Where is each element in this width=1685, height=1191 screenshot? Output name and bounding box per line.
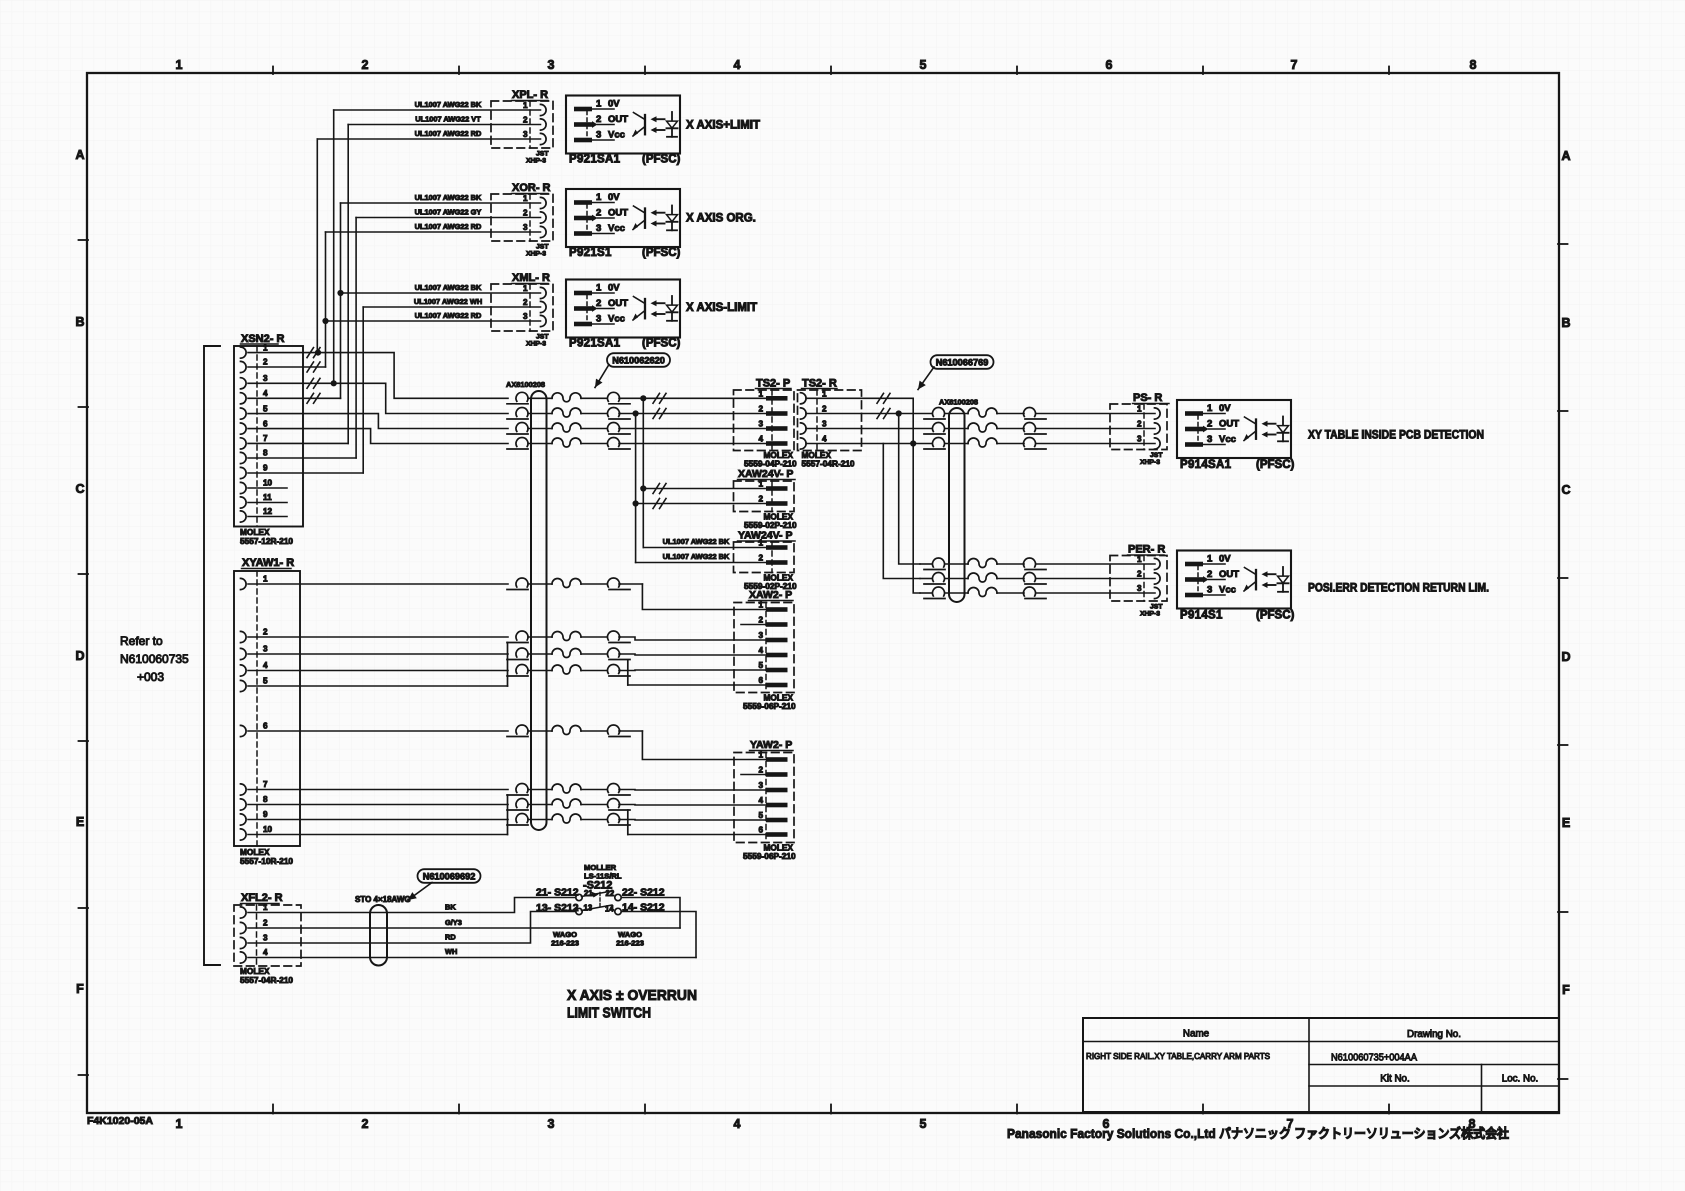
wire net XML WH vertical to XSN2 pin9 bbox=[362, 307, 364, 473]
cable1 crimp right y=443.5 bbox=[608, 438, 620, 447]
cable1 wire segment y=654 bbox=[528, 653, 552, 655]
wire to XAW24V-P pin2 bbox=[636, 503, 766, 505]
wire XYAW1 pin9 to YAW2-P pin5 bbox=[248, 819, 508, 821]
svg-text:1: 1 bbox=[176, 58, 183, 72]
svg-text:YAW2- P: YAW2- P bbox=[750, 739, 792, 751]
svg-text:XYAW1- R: XYAW1- R bbox=[242, 557, 294, 569]
svg-text:14: 14 bbox=[605, 905, 614, 914]
sensor P914S1 phototransistor bbox=[1255, 570, 1257, 589]
svg-text:1: 1 bbox=[523, 194, 528, 203]
cross-reference slashes pin1 bbox=[307, 348, 314, 358]
svg-text:2: 2 bbox=[1137, 570, 1142, 579]
leader line N610062620 bbox=[595, 365, 609, 388]
svg-text:UL1007 AWG22 BK: UL1007 AWG22 BK bbox=[415, 100, 482, 109]
wire net XOR GY vertical to XSN2 pin8 bbox=[355, 218, 357, 459]
svg-text:5: 5 bbox=[920, 58, 927, 72]
sensor P921SA1 photodiode bbox=[671, 112, 673, 137]
svg-text:3: 3 bbox=[1137, 435, 1142, 444]
svg-text:6: 6 bbox=[1106, 58, 1113, 72]
svg-text:UL1007 AWG22 BK: UL1007 AWG22 BK bbox=[663, 537, 730, 546]
connector XYAW1-R body bbox=[234, 571, 300, 846]
svg-text:-S212: -S212 bbox=[583, 880, 612, 892]
svg-text:BK: BK bbox=[445, 903, 456, 912]
frame row ticks right bbox=[1558, 243, 1568, 245]
switch S212 terminal 14 (WAGO) bbox=[615, 908, 621, 914]
svg-text:4: 4 bbox=[263, 948, 268, 957]
wire XSN2 pin2 bbox=[248, 366, 326, 368]
svg-text:3: 3 bbox=[758, 781, 763, 790]
sensor P921SA1 outline bbox=[566, 96, 680, 154]
wire XSN2 pin8 bbox=[248, 457, 356, 459]
svg-text:F: F bbox=[1562, 983, 1570, 997]
switch S212 mechanical link bbox=[599, 893, 601, 910]
svg-text:XHP-3: XHP-3 bbox=[526, 158, 546, 165]
svg-text:4: 4 bbox=[263, 389, 268, 398]
svg-text:1: 1 bbox=[758, 601, 763, 610]
junction branch to XAW24V-P pin1 bbox=[640, 395, 646, 401]
svg-text:6: 6 bbox=[263, 419, 268, 428]
svg-text:(PFSC): (PFSC) bbox=[1256, 610, 1295, 622]
wire cable2 w5 to PER-R pin2 bbox=[1036, 578, 1155, 580]
cable1 crimp right y=637 bbox=[608, 631, 620, 640]
svg-text:B: B bbox=[75, 315, 84, 329]
svg-text:P914SA1: P914SA1 bbox=[1180, 459, 1232, 471]
svg-text:RIGHT SIDE RAIL.XY TABLE,CARRY: RIGHT SIDE RAIL.XY TABLE,CARRY ARM PARTS bbox=[1086, 1052, 1271, 1061]
connector YAW24V-P pins bbox=[766, 545, 788, 550]
svg-text:TS2- P: TS2- P bbox=[756, 378, 790, 390]
junction XSN2 pin1 / XPL RD bbox=[315, 350, 321, 356]
wire XSN2 pin6 (cable w4) bbox=[248, 429, 508, 444]
svg-text:0V: 0V bbox=[608, 282, 620, 293]
svg-text:+003: +003 bbox=[137, 670, 164, 684]
svg-text:P914S1: P914S1 bbox=[1180, 610, 1223, 622]
svg-text:XHP-3: XHP-3 bbox=[1140, 611, 1160, 618]
cable1 crimp left y=654 bbox=[516, 648, 528, 657]
junction TS2-R pin1/pin4 bbox=[910, 440, 916, 446]
svg-text:XHP-3: XHP-3 bbox=[526, 341, 546, 348]
sensor P921SA1 pin bars bbox=[574, 291, 592, 296]
sensor P914S1 light arrows bbox=[1267, 573, 1276, 575]
svg-text:3: 3 bbox=[596, 313, 601, 324]
svg-text:P921SA1: P921SA1 bbox=[569, 154, 621, 166]
svg-text:3: 3 bbox=[263, 645, 268, 654]
wire cable w4 to TS2-P pin4 bbox=[620, 443, 766, 445]
connector TS2-P pins bbox=[766, 396, 788, 401]
svg-text:(PFSC): (PFSC) bbox=[642, 154, 681, 166]
switch S212 actuator arrow bbox=[591, 892, 599, 898]
svg-text:1: 1 bbox=[758, 751, 763, 760]
svg-text:B: B bbox=[1561, 316, 1570, 330]
svg-text:5: 5 bbox=[758, 811, 763, 820]
svg-text:5557-12R-210: 5557-12R-210 bbox=[240, 536, 293, 546]
wire cable2 w1 to PS-R pin1 bbox=[1036, 413, 1155, 415]
cross-reference slashes bbox=[653, 499, 660, 509]
svg-text:UL1007 AWG22 RD: UL1007 AWG22 RD bbox=[415, 311, 482, 320]
sensor P914SA1 light arrows bbox=[1267, 423, 1276, 425]
svg-text:4: 4 bbox=[263, 661, 268, 670]
connector YAW2-P pins bbox=[766, 757, 788, 762]
wire XFL2 pin3 RD to switch terminal 13 bbox=[248, 912, 577, 944]
cable2 wire segment y=413.5 bbox=[945, 413, 968, 415]
svg-text:9: 9 bbox=[263, 464, 268, 473]
svg-text:1: 1 bbox=[263, 903, 268, 912]
junction XML BK tap bbox=[337, 290, 343, 296]
sensor P914SA1 pin bars bbox=[1185, 411, 1203, 416]
svg-text:0V: 0V bbox=[1219, 553, 1231, 564]
svg-text:N610066769: N610066769 bbox=[936, 357, 989, 367]
part callout N610066769 bbox=[931, 355, 994, 369]
svg-text:PER- R: PER- R bbox=[1128, 544, 1165, 556]
cable2 wire segment y=593 bbox=[945, 592, 968, 594]
svg-text:AX6100208: AX6100208 bbox=[506, 380, 545, 389]
cable1 crimp left y=443.5 bbox=[516, 438, 528, 447]
connector XOR- R contacts bbox=[541, 197, 547, 208]
connector XFL2-R body bbox=[234, 905, 301, 966]
cable2 crimp right y=443.5 bbox=[1024, 438, 1036, 447]
svg-text:1: 1 bbox=[1207, 403, 1213, 414]
connector XAW24V-P pins bbox=[766, 486, 788, 491]
junction XSN2 pin3 / XPL BK bbox=[331, 380, 337, 386]
svg-text:3: 3 bbox=[758, 420, 763, 429]
svg-text:1: 1 bbox=[1207, 553, 1213, 564]
sensor P921SA1 pin leads bbox=[592, 108, 614, 110]
cable2 crimp left y=443.5 bbox=[933, 438, 945, 447]
svg-text:3: 3 bbox=[523, 312, 528, 321]
svg-text:7: 7 bbox=[263, 434, 268, 443]
part callout N610062620 bbox=[607, 353, 670, 367]
junction XML RD tap bbox=[322, 318, 328, 324]
svg-text:OUT: OUT bbox=[608, 298, 628, 309]
svg-text:N610069692: N610069692 bbox=[423, 871, 476, 881]
cross-reference slashes bbox=[877, 409, 884, 419]
cable STO 4X18AWG jacket bbox=[370, 905, 387, 966]
svg-text:5557-04R-210: 5557-04R-210 bbox=[802, 459, 855, 469]
sensor P914S1 photodiode bbox=[1282, 567, 1284, 592]
svg-text:6: 6 bbox=[758, 676, 763, 685]
svg-text:2: 2 bbox=[758, 766, 763, 775]
svg-text:UL1007 AWG22 RD: UL1007 AWG22 RD bbox=[415, 129, 482, 138]
svg-text:G/Y3: G/Y3 bbox=[445, 918, 462, 927]
svg-text:3: 3 bbox=[596, 129, 601, 140]
svg-text:JST: JST bbox=[1150, 452, 1163, 459]
svg-text:216-223: 216-223 bbox=[616, 939, 644, 948]
svg-text:0V: 0V bbox=[608, 98, 620, 109]
cable1 crimp right y=789.5 bbox=[608, 784, 620, 793]
svg-text:OUT: OUT bbox=[1219, 569, 1239, 580]
wire TS2-R pin4 to cable2 w3 bbox=[806, 443, 932, 445]
svg-text:X AXIS ± OVERRUN: X AXIS ± OVERRUN bbox=[567, 988, 697, 1004]
cable2 wire segment y=578.5 bbox=[945, 578, 968, 580]
wire cable w1 to TS2-P pin1 bbox=[620, 397, 766, 399]
wire XSN2 pin1 (net XPL RD / cable w1) bbox=[248, 353, 508, 399]
svg-text:2: 2 bbox=[596, 298, 601, 309]
cable2 crimp right y=413.5 bbox=[1024, 408, 1036, 417]
svg-text:8: 8 bbox=[1470, 58, 1477, 72]
cable1 crimp right y=398.3 bbox=[608, 392, 620, 401]
svg-text:7: 7 bbox=[263, 780, 268, 789]
svg-text:2: 2 bbox=[822, 405, 827, 414]
svg-text:1: 1 bbox=[758, 480, 763, 489]
wire UL1007 AWG22 RD to XML- R pin3 bbox=[326, 320, 541, 322]
svg-text:2: 2 bbox=[263, 919, 268, 928]
wire TS2-R pin1 to PER w3 bbox=[806, 398, 920, 593]
cable2 crimp right y=564 bbox=[1024, 558, 1036, 567]
cable1 crimp left y=789.5 bbox=[516, 784, 528, 793]
svg-text:0V: 0V bbox=[608, 192, 620, 203]
cable1 crimp left y=804.5 bbox=[516, 799, 528, 808]
svg-text:OUT: OUT bbox=[608, 114, 628, 125]
connector TS2-R body bbox=[798, 390, 862, 451]
wire PER w1 feed bbox=[920, 563, 932, 565]
svg-text:Panasonic Factory Solutions Co: Panasonic Factory Solutions Co.,Ltd パナソニ… bbox=[1007, 1126, 1509, 1141]
wire net XPL RD vertical to XSN2 pin1 bbox=[316, 139, 318, 353]
svg-text:XHP-3: XHP-3 bbox=[526, 251, 546, 258]
svg-text:1: 1 bbox=[758, 539, 763, 548]
wire branch vertical to XAW24V-P pin2 and YAW24V-P pin2 bbox=[635, 414, 637, 563]
sensor P914SA1 outline bbox=[1177, 400, 1291, 458]
wire UL1007 AWG22 RD to XOR- R pin3 bbox=[326, 231, 541, 233]
svg-text:6: 6 bbox=[263, 722, 268, 731]
svg-text:7: 7 bbox=[1291, 58, 1298, 72]
cable2 crimp left y=413.5 bbox=[933, 408, 945, 417]
wire cable2 w6 to PER-R pin3 bbox=[1036, 592, 1155, 594]
cable1 shield bus right (XYAW1 7-10 group) bbox=[627, 810, 629, 835]
svg-text:Vcc: Vcc bbox=[1219, 434, 1236, 445]
svg-text:XOR- R: XOR- R bbox=[512, 182, 551, 194]
cable1 wire segment y=428.5 bbox=[528, 428, 552, 430]
svg-text:POSI.ERR DETECTION RETURN LIM.: POSI.ERR DETECTION RETURN LIM. bbox=[1308, 581, 1489, 595]
sensor P921SA1 outline bbox=[566, 280, 680, 338]
svg-text:2: 2 bbox=[523, 209, 528, 218]
wire XYAW1 pin10 shield drain bbox=[248, 834, 508, 836]
wire branch vertical to XAW24V-P pin1 and YAW24V-P pin1 bbox=[642, 398, 644, 547]
svg-text:2: 2 bbox=[1137, 420, 1142, 429]
svg-text:22- S212: 22- S212 bbox=[622, 887, 665, 899]
cable2 wire segment y=564 bbox=[945, 563, 968, 565]
switch S212 terminal 21 (WAGO) bbox=[576, 894, 582, 900]
svg-text:2: 2 bbox=[1207, 569, 1212, 580]
svg-text:Loc. No.: Loc. No. bbox=[1502, 1074, 1539, 1085]
cable1 crimp left y=637 bbox=[516, 631, 528, 640]
sensor P921SA1 pin leads bbox=[592, 292, 614, 294]
svg-text:AX6100208: AX6100208 bbox=[939, 398, 978, 407]
connector TS2-R contacts bbox=[801, 393, 807, 404]
cable AX6100208 jacket bbox=[531, 391, 547, 830]
svg-text:A: A bbox=[1561, 149, 1570, 163]
svg-text:8: 8 bbox=[263, 449, 268, 458]
wire UL1007 AWG22 RD to XPL- R pin3 bbox=[317, 138, 540, 140]
svg-text:N610060735+004AA: N610060735+004AA bbox=[1331, 1052, 1417, 1064]
sensor P921S1 outline bbox=[566, 189, 680, 247]
wire XSN2 pin11 stub bbox=[248, 502, 287, 504]
sensor P921SA1 phototransistor bbox=[644, 115, 646, 134]
svg-text:1: 1 bbox=[1137, 405, 1142, 414]
cable1 shield bus left (XYAW1 2-5 group) bbox=[507, 643, 509, 687]
connector TS2-P body bbox=[734, 390, 795, 451]
svg-text:3: 3 bbox=[263, 934, 268, 943]
title block dividers bbox=[1083, 1041, 1559, 1043]
svg-text:3: 3 bbox=[523, 130, 528, 139]
wire switch terminal 22 to G/Y3 bbox=[621, 898, 680, 929]
svg-text:5557-04R-210: 5557-04R-210 bbox=[240, 975, 293, 985]
junction XAW24V tap bbox=[633, 500, 639, 506]
cross-reference slashes bbox=[877, 393, 884, 403]
svg-text:4: 4 bbox=[734, 58, 741, 72]
cable1 crimp right y=819.5 bbox=[608, 814, 620, 823]
svg-text:3: 3 bbox=[263, 374, 268, 383]
svg-text:STO 4×18AWG: STO 4×18AWG bbox=[355, 895, 411, 904]
sensor P921S1 pin leads bbox=[592, 202, 614, 204]
sensor P914SA1 photodiode bbox=[1282, 417, 1284, 442]
svg-text:2: 2 bbox=[523, 298, 528, 307]
cross-reference slashes pin4 bbox=[307, 393, 314, 403]
connector XOR- R body bbox=[491, 194, 553, 241]
cable1 wire segment y=789.5 bbox=[528, 789, 552, 791]
wire net XPL BK vertical to XSN2 pin3 bbox=[333, 110, 335, 383]
switch S212 terminal 22 (WAGO) bbox=[615, 894, 621, 900]
cable1 wire segment y=731 bbox=[528, 730, 552, 732]
sensor P914S1 outline bbox=[1177, 551, 1291, 609]
wire cable2 w2 to PS-R pin2 bbox=[1036, 428, 1155, 430]
svg-text:JST: JST bbox=[536, 334, 549, 341]
wire XYAW1 pin3 to XAW2-P pin4 bbox=[248, 653, 508, 655]
svg-text:3: 3 bbox=[548, 1117, 555, 1131]
svg-text:XFL2- R: XFL2- R bbox=[241, 892, 283, 904]
cable1 wire segment y=398.3 bbox=[528, 397, 552, 399]
svg-text:F4K1020-05A: F4K1020-05A bbox=[87, 1115, 153, 1127]
svg-text:3: 3 bbox=[1207, 584, 1212, 595]
junction branch to PER w1 bbox=[896, 410, 902, 416]
sensor P921S1 phototransistor bbox=[644, 209, 646, 228]
svg-text:10: 10 bbox=[263, 825, 273, 834]
cable1 crimp right y=584 bbox=[608, 578, 620, 587]
svg-text:1: 1 bbox=[822, 389, 827, 398]
svg-text:X AXIS+LIMIT: X AXIS+LIMIT bbox=[686, 120, 760, 132]
wire UL1007 AWG22 GY to XOR- R pin2 bbox=[356, 217, 540, 219]
svg-text:2: 2 bbox=[523, 116, 528, 125]
svg-text:UL1007 AWG22 GY: UL1007 AWG22 GY bbox=[415, 207, 482, 216]
part callout N610069692 bbox=[418, 869, 481, 883]
svg-text:P921SA1: P921SA1 bbox=[569, 338, 621, 350]
svg-text:3: 3 bbox=[1137, 584, 1142, 593]
wire UL1007 AWG22 BK to XPL- R pin1 bbox=[334, 109, 541, 111]
connector PER- R contacts bbox=[1155, 558, 1161, 569]
wire XFL2 pin4 WH bbox=[248, 957, 696, 959]
wire UL1007 AWG22 BK to XML- R pin1 bbox=[341, 292, 541, 294]
cross-reference slashes bbox=[653, 409, 660, 419]
svg-text:5: 5 bbox=[758, 661, 763, 670]
wire UL1007 AWG22 WH to XML- R pin2 bbox=[363, 306, 540, 308]
cable2 crimp left y=564 bbox=[933, 558, 945, 567]
svg-text:2: 2 bbox=[758, 495, 763, 504]
wire XSN2 pin10 stub bbox=[248, 487, 287, 489]
svg-text:3: 3 bbox=[822, 420, 827, 429]
svg-text:2: 2 bbox=[263, 358, 268, 367]
svg-text:XPL- R: XPL- R bbox=[512, 89, 548, 101]
svg-text:4: 4 bbox=[758, 796, 763, 805]
svg-text:Refer to: Refer to bbox=[120, 634, 163, 648]
svg-text:Kit No.: Kit No. bbox=[1380, 1074, 1409, 1085]
frame column ticks top bbox=[272, 67, 274, 75]
connector XAW2-P body bbox=[734, 603, 794, 693]
sensor P921SA1 pin bars bbox=[574, 107, 592, 112]
wire XYAW1 pin8 to YAW2-P pin4 bbox=[248, 804, 508, 806]
wire cable w3 to TS2-P pin3 bbox=[620, 428, 766, 430]
cable1 crimp right y=654 bbox=[608, 648, 620, 657]
svg-text:5559-04P-210: 5559-04P-210 bbox=[744, 459, 797, 469]
svg-text:Vcc: Vcc bbox=[1219, 584, 1236, 595]
connector XML- R body bbox=[491, 284, 553, 331]
svg-text:X AXIS ORG.: X AXIS ORG. bbox=[686, 213, 756, 225]
sensor P914SA1 phototransistor bbox=[1255, 420, 1257, 439]
wire net XOR/XML BK vertical to XSN2 pin4 bbox=[340, 203, 342, 398]
svg-text:5559-06P-210: 5559-06P-210 bbox=[743, 851, 796, 861]
wire branch vertical TS2-R pin4 to PER w2 bbox=[883, 444, 920, 579]
wire switch terminal 14 to WH bbox=[621, 912, 696, 958]
junction branch to XAW24V-P pin2 bbox=[633, 410, 639, 416]
cable1 wire segment y=413.5 bbox=[528, 413, 552, 415]
cable1 crimp left y=428.5 bbox=[516, 423, 528, 432]
wire XYAW1 pin1 to XAW2-P pin1 bbox=[248, 583, 508, 585]
svg-text:1: 1 bbox=[523, 284, 528, 293]
svg-text:PS- R: PS- R bbox=[1133, 392, 1162, 404]
sensor P921SA1 photodiode bbox=[671, 296, 673, 321]
svg-text:UL1007 AWG22 VT: UL1007 AWG22 VT bbox=[415, 114, 481, 123]
sensor P914SA1 pin leads bbox=[1203, 413, 1225, 415]
cable1 crimp right y=670.5 bbox=[608, 665, 620, 674]
connector PER- R body bbox=[1110, 556, 1167, 602]
frame column ticks bottom bbox=[272, 1105, 274, 1114]
svg-text:13- S212: 13- S212 bbox=[536, 902, 579, 914]
cable2 wire segment y=428.5 bbox=[945, 428, 968, 430]
svg-text:4: 4 bbox=[758, 646, 763, 655]
wire XYAW1 pin5 shield drain bbox=[248, 685, 508, 687]
svg-text:(PFSC): (PFSC) bbox=[1256, 459, 1295, 471]
svg-text:N610062620: N610062620 bbox=[612, 355, 665, 365]
svg-text:A: A bbox=[75, 148, 84, 162]
cable2 crimp right y=593 bbox=[1024, 587, 1036, 596]
connector XPL- R contacts bbox=[541, 104, 547, 115]
svg-text:UL1007 AWG22 BK: UL1007 AWG22 BK bbox=[415, 193, 482, 202]
svg-text:Vcc: Vcc bbox=[608, 223, 625, 234]
wire XYAW1 pin7 to YAW2-P pin3 bbox=[248, 789, 508, 791]
svg-text:Vcc: Vcc bbox=[608, 313, 625, 324]
svg-text:P921S1: P921S1 bbox=[569, 247, 612, 259]
connector XSN2-R contacts bbox=[241, 347, 247, 358]
wire UL1007 AWG22 VT to XPL- R pin2 bbox=[348, 124, 540, 126]
sensor P921SA1 light arrows bbox=[656, 302, 665, 304]
wire TS2-R pin3 to cable2 w2 bbox=[806, 428, 932, 430]
junction XAW24V tap bbox=[640, 485, 646, 491]
cable2 crimp left y=428.5 bbox=[933, 423, 945, 432]
connector XFL2-R contacts bbox=[241, 907, 247, 918]
svg-text:XAW2- P: XAW2- P bbox=[749, 589, 792, 601]
svg-text:YAW24V- P: YAW24V- P bbox=[738, 530, 792, 542]
sensor P921S1 light arrows bbox=[656, 212, 665, 214]
svg-text:5559-06P-210: 5559-06P-210 bbox=[743, 701, 796, 711]
wire XSN2 pin12 stub bbox=[248, 516, 287, 518]
cross-reference slashes bbox=[653, 484, 660, 494]
svg-text:E: E bbox=[76, 815, 84, 829]
wire shield drain to XAW2-P pin6 bbox=[628, 684, 766, 686]
cable1 crimp right y=731 bbox=[608, 725, 620, 734]
svg-text:Name: Name bbox=[1183, 1029, 1210, 1040]
svg-text:2: 2 bbox=[758, 405, 763, 414]
cross-reference slashes pin3 bbox=[307, 378, 314, 388]
svg-text:1: 1 bbox=[596, 98, 602, 109]
sensor P921S1 pin bars bbox=[574, 200, 592, 205]
connector PS- R contacts bbox=[1155, 408, 1161, 419]
